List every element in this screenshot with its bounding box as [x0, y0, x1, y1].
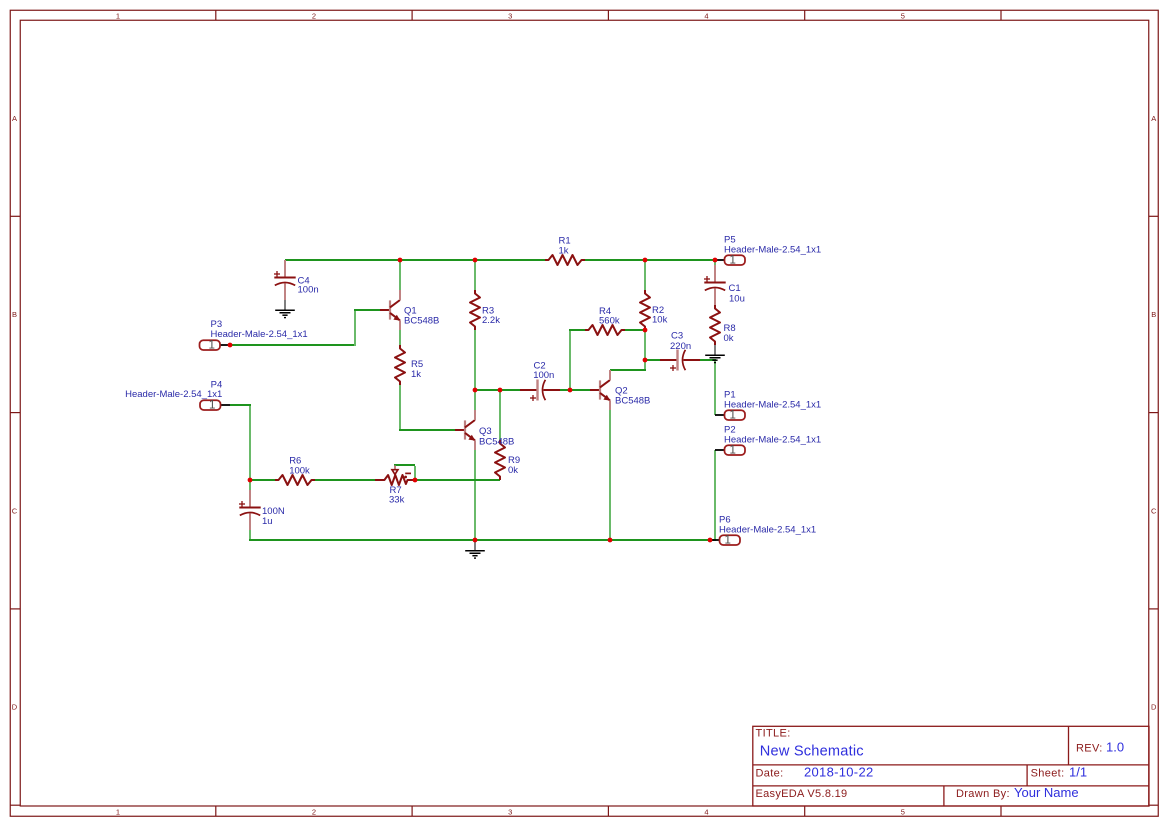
column labels top	[116, 11, 905, 20]
label REV:	[1076, 743, 1103, 755]
svg-text:Header-Male-2.54_1x1: Header-Male-2.54_1x1	[211, 329, 308, 340]
label C1	[729, 283, 745, 305]
svg-text:C: C	[12, 506, 18, 515]
wire R9 top	[499, 389, 501, 440]
junction (400,260)	[398, 258, 403, 263]
svg-text:B: B	[12, 310, 17, 319]
svg-text:BC548B: BC548B	[479, 437, 514, 448]
resistor R1	[545, 255, 585, 265]
svg-text:1: 1	[729, 255, 735, 267]
wire C3 to P1	[700, 360, 716, 415]
junction (475,540)	[473, 538, 478, 543]
svg-text:1: 1	[116, 807, 120, 816]
svg-text:10k: 10k	[652, 315, 668, 326]
label P5	[724, 235, 821, 256]
title block DrawnBy divider	[943, 786, 945, 806]
svg-text:0k: 0k	[508, 465, 518, 476]
svg-text:560k: 560k	[599, 315, 620, 326]
ground below C4	[275, 300, 295, 318]
svg-text:C: C	[1151, 506, 1157, 515]
wire R5 to Q3 base	[399, 385, 455, 431]
header P3	[200, 340, 221, 352]
label EasyEDA V5.8.19	[756, 788, 848, 800]
resistor R9	[495, 440, 505, 480]
label Drawn By:	[956, 788, 1010, 800]
svg-text:Sheet:: Sheet:	[1031, 768, 1065, 780]
svg-text:Drawn By:: Drawn By:	[956, 788, 1010, 800]
svg-text:Header-Male-2.54_1x1: Header-Male-2.54_1x1	[125, 389, 222, 400]
svg-text:0k: 0k	[724, 333, 734, 344]
label P3	[211, 319, 308, 340]
svg-text:1: 1	[209, 400, 215, 412]
capacitor 100N	[239, 490, 261, 530]
svg-text:Date:: Date:	[756, 768, 784, 780]
title block frame	[753, 726, 1149, 806]
sheet value 1/1	[1069, 765, 1087, 780]
row ticks right	[1149, 216, 1158, 805]
header P3 lead	[220, 344, 230, 346]
wire R3 top	[474, 259, 476, 290]
svg-text:BC548B: BC548B	[615, 396, 650, 407]
wire R3 bottom	[474, 330, 476, 391]
junction (645,330)	[643, 328, 648, 333]
label R1	[559, 236, 571, 257]
rev value 1.0	[1106, 740, 1124, 755]
wire VCC rail left	[285, 259, 545, 261]
resistor R4	[585, 325, 625, 335]
column ticks top	[216, 10, 1001, 20]
wire C3 left	[644, 359, 660, 361]
svg-text:100n: 100n	[298, 285, 319, 296]
header P4	[200, 400, 221, 412]
svg-text:1k: 1k	[411, 369, 421, 380]
svg-text:4: 4	[704, 11, 708, 20]
label Q1	[404, 306, 439, 327]
column ticks bottom	[216, 806, 1001, 816]
wire C1 top	[714, 260, 716, 265]
wire Q2 emitter down	[609, 410, 611, 541]
header P1	[725, 410, 746, 422]
svg-text:1: 1	[729, 445, 735, 457]
row ticks left	[10, 216, 20, 805]
label P2	[724, 425, 821, 446]
svg-text:Header-Male-2.54_1x1: Header-Male-2.54_1x1	[724, 245, 821, 256]
label Q3	[479, 426, 514, 448]
svg-text:5: 5	[901, 807, 905, 816]
svg-text:EasyEDA V5.8.19: EasyEDA V5.8.19	[756, 788, 848, 800]
resistor R2	[640, 290, 650, 330]
svg-text:2018-10-22: 2018-10-22	[804, 765, 874, 780]
ground bottom rail	[465, 541, 485, 559]
junction (475,390)	[473, 388, 478, 393]
svg-text:220n: 220n	[670, 341, 691, 352]
svg-text:Header-Male-2.54_1x1: Header-Male-2.54_1x1	[719, 525, 816, 536]
label P4	[125, 380, 222, 401]
title block row divider 1	[753, 764, 1149, 766]
svg-text:1.0: 1.0	[1106, 740, 1124, 755]
ground below R8	[705, 345, 725, 363]
wire R7 wiper link	[394, 465, 415, 480]
column labels bottom	[116, 807, 905, 816]
label R2	[652, 305, 668, 326]
title block row divider 2	[753, 785, 1149, 787]
svg-text:Header-Male-2.54_1x1: Header-Male-2.54_1x1	[724, 435, 821, 446]
capacitor C4	[274, 260, 296, 300]
label R9	[508, 455, 520, 476]
svg-text:1u: 1u	[262, 516, 273, 527]
junction (500,390)	[498, 388, 503, 393]
junction (715,260)	[713, 258, 718, 263]
wire R7 to R9 bottom	[415, 479, 500, 481]
wire ground rail	[249, 530, 715, 540]
svg-text:1: 1	[729, 410, 735, 422]
svg-text:Header-Male-2.54_1x1: Header-Male-2.54_1x1	[724, 400, 821, 411]
capacitor C2	[520, 380, 560, 402]
svg-text:B: B	[1151, 310, 1156, 319]
wire R6 to R7	[315, 479, 375, 481]
header P6	[720, 535, 741, 547]
header P1 lead	[715, 414, 725, 416]
wire VCC rail right	[585, 259, 715, 261]
row labels left	[12, 114, 18, 712]
transistor Q3	[455, 410, 475, 450]
drawn-by value Your Name	[1014, 785, 1079, 800]
label R8	[724, 323, 736, 344]
wire to cap 100N	[249, 480, 251, 490]
svg-text:BC548B: BC548B	[404, 316, 439, 327]
date value	[804, 765, 874, 780]
label C2	[533, 360, 554, 381]
label R5	[411, 359, 423, 380]
svg-text:1/1: 1/1	[1069, 765, 1087, 780]
junction (570,390)	[568, 388, 573, 393]
wire to R6	[250, 479, 275, 481]
capacitor C1	[704, 265, 726, 305]
wire node A to C2	[475, 389, 520, 391]
svg-text:3: 3	[508, 11, 512, 20]
label Sheet:	[1031, 768, 1065, 780]
label R6	[289, 456, 310, 477]
junction (475,260)	[473, 258, 478, 263]
svg-text:Your Name: Your Name	[1014, 785, 1079, 800]
svg-text:2: 2	[312, 807, 316, 816]
capacitor C3	[660, 350, 700, 372]
header P4 lead	[221, 404, 230, 406]
svg-text:TITLE:: TITLE:	[756, 727, 791, 739]
junction (415,480)	[413, 478, 418, 483]
label R7	[389, 485, 405, 506]
title New Schematic	[760, 744, 864, 760]
wire R4 right	[625, 329, 645, 331]
svg-text:100n: 100n	[533, 370, 554, 381]
header P2 lead	[715, 449, 725, 451]
svg-text:REV:: REV:	[1076, 743, 1103, 755]
svg-text:4: 4	[704, 807, 708, 816]
svg-text:A: A	[1151, 114, 1156, 123]
junction (645,360)	[643, 358, 648, 363]
svg-text:1: 1	[208, 340, 214, 352]
label Q2	[615, 386, 650, 407]
resistor R8	[710, 305, 720, 345]
wire P3 to Q1 base	[230, 309, 380, 346]
wire R2 top	[644, 259, 646, 290]
label C3	[670, 331, 691, 353]
junction (610,540)	[608, 538, 613, 543]
row labels right	[1151, 114, 1157, 712]
transistor Q2	[590, 370, 610, 410]
svg-text:New Schematic: New Schematic	[760, 744, 864, 760]
svg-text:5: 5	[901, 11, 905, 20]
header P5	[725, 255, 746, 267]
wire Q1 emitter to R5	[399, 330, 401, 345]
svg-text:1k: 1k	[559, 245, 569, 256]
svg-text:1: 1	[116, 11, 120, 20]
wire R4 left riser	[569, 329, 585, 391]
label TITLE:	[756, 727, 791, 739]
label R3	[482, 306, 500, 327]
header P5 lead	[715, 259, 725, 261]
svg-text:C3: C3	[671, 331, 683, 342]
wire P2 riser	[714, 450, 716, 541]
wire C2 to Q2 base	[560, 389, 590, 391]
wire Q2 collector	[610, 369, 646, 371]
svg-text:2.2k: 2.2k	[482, 315, 500, 326]
junction (250,480)	[248, 478, 253, 483]
svg-text:33k: 33k	[389, 495, 405, 506]
label P1	[724, 390, 821, 411]
transistor Q1	[380, 290, 400, 330]
svg-text:3: 3	[508, 807, 512, 816]
svg-text:1: 1	[724, 535, 730, 547]
label Date:	[756, 768, 784, 780]
svg-text:D: D	[12, 703, 18, 712]
svg-text:C1: C1	[729, 283, 741, 294]
svg-text:Q3: Q3	[479, 426, 492, 437]
resistor R3	[470, 290, 480, 330]
wire Q3 collector	[474, 389, 476, 410]
svg-text:2: 2	[312, 11, 316, 20]
label 100N	[262, 506, 285, 527]
title block Sheet divider	[1026, 765, 1028, 786]
label C4	[298, 276, 319, 296]
wire P4 riser	[230, 405, 251, 480]
label R4	[599, 306, 620, 327]
svg-text:100k: 100k	[289, 465, 310, 476]
header P2	[725, 445, 746, 457]
junction (645,260)	[643, 258, 648, 263]
resistor R5	[395, 345, 405, 385]
wire Q3 emitter down	[474, 450, 476, 541]
resistor R6	[275, 475, 315, 485]
wire Q1 collector riser	[399, 259, 401, 290]
junction (230,345)	[228, 343, 233, 348]
svg-text:D: D	[1151, 703, 1157, 712]
svg-text:A: A	[12, 114, 17, 123]
header P6 lead	[710, 539, 720, 541]
svg-text:10u: 10u	[729, 294, 745, 305]
label P6	[719, 515, 816, 536]
junction (710,540)	[708, 538, 713, 543]
potentiometer R7	[375, 466, 415, 486]
wire R2 bottom	[644, 330, 646, 370]
title block REV divider	[1068, 726, 1070, 765]
